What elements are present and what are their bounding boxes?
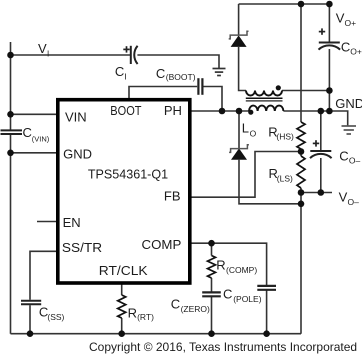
svg-text:Copyright © 2016, Texas Instru: Copyright © 2016, Texas Instruments Inco… xyxy=(89,340,357,354)
ground (output GND, right) xyxy=(342,126,357,134)
svg-text:(COMP): (COMP) xyxy=(226,265,257,275)
wire D1 anode lead xyxy=(239,47,246,91)
wire top winding right lead xyxy=(282,90,329,92)
node CO- bottom / VO- xyxy=(318,189,325,196)
capacitor CSS xyxy=(21,301,41,305)
svg-text:BOOT: BOOT xyxy=(110,103,141,118)
resistor RCOMP xyxy=(208,256,216,279)
svg-text:O–: O– xyxy=(349,156,361,166)
svg-text:O+: O+ xyxy=(350,47,362,57)
node D2 anode / return xyxy=(298,201,305,208)
node VIN/rail xyxy=(7,111,14,118)
svg-text:EN: EN xyxy=(63,215,81,230)
wire CO- branch lower xyxy=(320,158,322,193)
wire top rail xyxy=(239,3,330,5)
svg-text:V: V xyxy=(336,11,345,26)
svg-text:C: C xyxy=(171,297,180,312)
node VI/rail xyxy=(7,52,14,59)
wire COMP pin xyxy=(190,243,267,285)
node polarity dot top winding xyxy=(276,85,281,90)
svg-text:(BOOT): (BOOT) xyxy=(166,72,196,82)
svg-text:C: C xyxy=(156,66,165,81)
wire EN stub xyxy=(37,221,57,223)
wire RRT to rail xyxy=(121,318,123,334)
svg-text:GND: GND xyxy=(63,146,92,161)
svg-text:C: C xyxy=(115,64,124,79)
svg-text:(POLE): (POLE) xyxy=(233,294,262,304)
svg-text:R: R xyxy=(216,258,225,273)
wire CI to ground xyxy=(137,55,219,68)
svg-text:(RT): (RT) xyxy=(137,312,154,322)
node top rail / sense xyxy=(298,1,305,8)
node CBOOT/PH xyxy=(219,108,226,115)
wire VO- out xyxy=(301,192,332,194)
svg-text:R: R xyxy=(128,305,137,320)
wire BOOT pin xyxy=(129,87,197,99)
svg-text:(SS): (SS) xyxy=(47,312,64,322)
inductor LO bottom winding xyxy=(249,106,283,111)
wire CZERO to rail xyxy=(211,297,213,334)
wire CBOOT to PH xyxy=(203,87,222,112)
svg-text:O+: O+ xyxy=(345,18,357,28)
svg-text:COMP: COMP xyxy=(142,237,182,252)
wire CPOLE to rail xyxy=(266,291,268,334)
node CO+ bottom / winding xyxy=(326,87,333,94)
svg-text:RT/CLK: RT/CLK xyxy=(99,263,148,278)
svg-text:FB: FB xyxy=(164,188,181,203)
node RRT / rail xyxy=(118,330,125,337)
resistor RLS xyxy=(297,156,305,188)
svg-text:I: I xyxy=(124,72,126,82)
wire left rail lower xyxy=(10,135,12,334)
wire RCOMP lead xyxy=(211,243,213,255)
node RHS/RLS divider xyxy=(298,148,305,155)
wire RLS bottom xyxy=(300,188,302,193)
wire D1 cathode lead xyxy=(238,4,240,35)
capacitor CO- xyxy=(310,151,332,158)
capacitor CBOOT xyxy=(198,78,202,95)
svg-text:C: C xyxy=(341,39,350,54)
svg-text:V: V xyxy=(38,41,47,56)
capacitor CVIN xyxy=(1,130,23,134)
wire PH pin xyxy=(190,110,249,112)
wire RHS top to RLS xyxy=(300,149,302,156)
svg-text:O–: O– xyxy=(348,197,360,207)
capacitor CZERO xyxy=(202,292,221,296)
svg-text:(VIN): (VIN) xyxy=(32,134,50,143)
node GND/rail xyxy=(7,150,14,157)
wire FB divider tap xyxy=(190,152,301,198)
resistor RRT xyxy=(118,295,126,318)
svg-text:C: C xyxy=(23,125,32,140)
node top rail / CO+ xyxy=(326,1,333,8)
node CSS / rail xyxy=(27,330,34,337)
node PH/D2/LO xyxy=(236,108,243,115)
svg-text:VIN: VIN xyxy=(65,109,87,124)
svg-text:GND: GND xyxy=(335,96,362,111)
wire VO+ sense line xyxy=(300,4,302,122)
capacitor CO+ xyxy=(319,43,341,50)
diode D2 xyxy=(231,148,247,159)
inductor LO core xyxy=(246,97,283,99)
wire left rail upper xyxy=(10,55,12,130)
wire RCOMP to CZERO xyxy=(211,278,213,292)
svg-text:L: L xyxy=(242,120,249,135)
svg-text:PH: PH xyxy=(164,103,182,118)
ground (input, near CBOOT) xyxy=(213,69,226,76)
wire CO- branch upper xyxy=(320,111,322,151)
svg-text:O: O xyxy=(250,129,257,139)
inductor LO top winding xyxy=(246,91,282,96)
wire CO+ branch upper xyxy=(328,4,330,43)
wire CO+ branch lower xyxy=(328,49,330,111)
wire D2 anode lead xyxy=(239,160,301,204)
wire GND out to symbol xyxy=(283,111,347,126)
wire VIN pin xyxy=(11,113,58,115)
wire CSS to rail xyxy=(29,305,31,334)
wire SS/TR pin xyxy=(30,251,57,299)
node CPOLE / rail xyxy=(263,330,270,337)
wire D2 cathode lead xyxy=(238,111,240,149)
capacitor CPOLE xyxy=(257,286,276,290)
wire RT/CLK pin xyxy=(121,284,123,295)
svg-text:I: I xyxy=(47,49,49,58)
node CO- top / gnd wire xyxy=(318,108,325,115)
svg-text:V: V xyxy=(339,189,348,204)
svg-text:C: C xyxy=(223,287,232,302)
node CZERO / rail xyxy=(208,330,215,337)
resistor RHS xyxy=(297,122,305,149)
node RLS/VO- xyxy=(298,189,305,196)
wire input top xyxy=(11,54,131,56)
svg-text:(HS): (HS) xyxy=(276,132,294,142)
svg-text:C: C xyxy=(339,148,348,163)
svg-text:(LS): (LS) xyxy=(277,174,293,184)
svg-text:TPS54361-Q1: TPS54361-Q1 xyxy=(88,166,168,181)
diode D1 xyxy=(231,35,247,47)
capacitor CI (polarized input cap) xyxy=(131,46,138,64)
node VI input stub xyxy=(10,42,12,55)
svg-text:(ZERO): (ZERO) xyxy=(181,304,210,314)
node COMP / RCOMP xyxy=(208,240,215,247)
wire bottom rail xyxy=(11,333,302,335)
IC U1 TPS54361-Q1 body xyxy=(58,100,190,283)
wire GND pin xyxy=(11,152,58,154)
wire RLS to rail xyxy=(300,193,302,334)
svg-text:SS/TR: SS/TR xyxy=(62,240,102,255)
node polarity dot bottom winding xyxy=(248,110,253,115)
node gnd wire / CO+ branch xyxy=(326,108,333,115)
